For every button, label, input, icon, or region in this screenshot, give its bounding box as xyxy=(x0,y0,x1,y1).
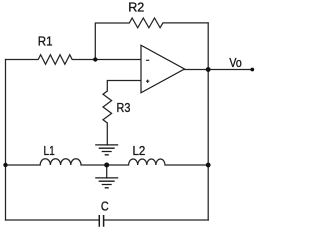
svg-text:Vo: Vo xyxy=(229,55,241,70)
svg-text:R1: R1 xyxy=(38,33,53,48)
svg-text:C: C xyxy=(101,198,109,213)
svg-text:L1: L1 xyxy=(44,143,55,158)
svg-text:L2: L2 xyxy=(133,143,146,158)
svg-text:R2: R2 xyxy=(128,0,144,14)
svg-text:R3: R3 xyxy=(117,100,131,115)
